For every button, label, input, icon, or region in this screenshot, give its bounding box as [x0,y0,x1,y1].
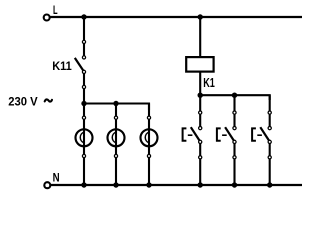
junction [198,93,203,98]
relay contact K1.1 [183,95,202,185]
junction [232,182,237,187]
wire [83,17,85,57]
junction [198,14,203,19]
svg-text:L: L [53,3,58,17]
relay contact K1.3 [252,95,271,185]
junction [146,182,151,187]
junction [81,182,86,187]
svg-text:K11: K11 [52,59,72,73]
terminal L [44,15,50,21]
junction [81,14,86,19]
lamp E3 [141,116,158,157]
junction [113,182,118,187]
terminal N [44,182,50,188]
relay contact K1.2 [217,95,236,185]
svg-text:K1: K1 [203,75,215,90]
junction [267,182,272,187]
wire L rail [50,16,302,18]
wire [148,104,150,186]
wire [115,104,117,186]
wire N rail [51,184,302,186]
wire contact bus [200,95,270,100]
junction [113,101,118,106]
junction [198,182,203,187]
junction [81,101,86,106]
wire [199,17,201,95]
lamp E1 [76,116,93,157]
svg-text:N: N [53,170,60,184]
wire [83,104,85,186]
svg-text:230 V: 230 V [8,94,38,108]
switch contact K11 [75,40,86,103]
wire lamp bus [84,104,149,111]
relay coil K1 [186,57,213,72]
junction [232,93,237,98]
lamp E2 [108,116,125,157]
